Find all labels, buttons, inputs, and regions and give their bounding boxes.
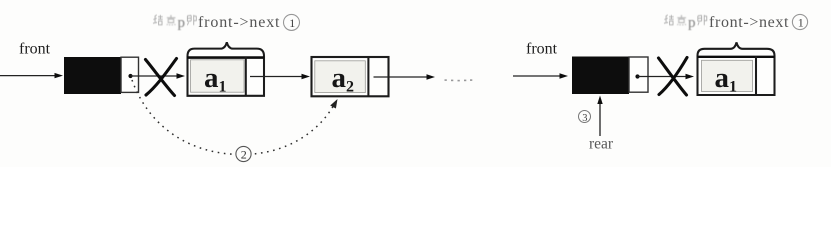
node a1 inner data area (right) bbox=[702, 60, 753, 91]
circled 1 (left) bbox=[284, 14, 300, 30]
svg-text:rear: rear bbox=[589, 136, 614, 153]
svg-text:front->next: front->next bbox=[198, 14, 280, 31]
wire: a1 to a2 bbox=[250, 76, 302, 78]
svg-text:front: front bbox=[526, 41, 558, 58]
svg-text:p: p bbox=[688, 15, 696, 31]
svg-text:1: 1 bbox=[798, 16, 804, 30]
svg-text:1: 1 bbox=[289, 16, 295, 30]
pointer origin dot in head node next field (left) bbox=[128, 74, 132, 78]
X mark: broken link (left) bbox=[146, 59, 177, 96]
caption: hanzi 即 (right) bbox=[698, 15, 707, 25]
svg-text:2: 2 bbox=[241, 148, 247, 162]
caption: hanzi 点 (right) bbox=[677, 15, 686, 26]
head node data field (black, left) bbox=[64, 57, 121, 94]
svg-text:front: front bbox=[19, 41, 51, 58]
dotted arc wire (2): front->next rerouted to a2 bbox=[132, 80, 335, 155]
wire: rear pointer arrow (vertical, right) bbox=[599, 102, 601, 136]
node a1 field divider (left) bbox=[245, 57, 247, 96]
wire: head node to a1 (right) bbox=[638, 76, 688, 78]
ellipsis dots after a2 bbox=[445, 79, 473, 81]
node a2 outline bbox=[312, 57, 389, 96]
wire: front pointer arrow (left) bbox=[0, 75, 55, 77]
node a1 inner data area (left) bbox=[191, 60, 245, 92]
node a1 top edge (right) bbox=[698, 56, 775, 58]
node a1 top edge (left) bbox=[187, 56, 264, 59]
X mark: broken link (right) bbox=[659, 58, 688, 96]
wire: front pointer arrow (right) bbox=[513, 75, 560, 77]
svg-text:p: p bbox=[178, 15, 186, 31]
caption: hanzi 即 (left) bbox=[187, 15, 196, 25]
circled 2 on arc bbox=[236, 146, 251, 161]
svg-text:3: 3 bbox=[582, 113, 587, 124]
circled 3 bbox=[579, 111, 591, 123]
caption: hanzi 结 (left) bbox=[153, 15, 163, 25]
wire: head node to a1 (left) bbox=[131, 75, 179, 77]
svg-text:front->next: front->next bbox=[709, 14, 789, 31]
head node data field (black, right) bbox=[572, 57, 629, 95]
caption: hanzi 点 (left) bbox=[167, 15, 176, 26]
brace over node a1 (left), merged with node outline bbox=[188, 42, 265, 96]
node a2 inner data area bbox=[315, 61, 366, 93]
caption: hanzi 结 (right) bbox=[664, 15, 674, 25]
pointer origin dot (right) bbox=[635, 74, 639, 78]
head node next field (left) bbox=[121, 57, 139, 92]
brace over node a1 (right), merged with node outline bbox=[698, 42, 775, 95]
node a2 field divider bbox=[367, 57, 369, 96]
head node next field (right) bbox=[629, 57, 648, 92]
wire: a2 to rest bbox=[374, 76, 428, 78]
node a1 field divider (right) bbox=[755, 57, 757, 96]
circled 1 (right) bbox=[792, 14, 807, 29]
